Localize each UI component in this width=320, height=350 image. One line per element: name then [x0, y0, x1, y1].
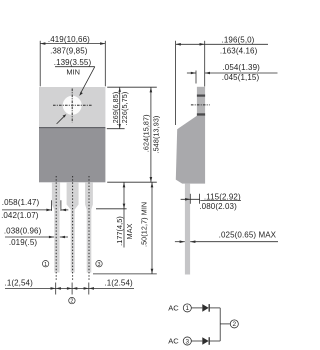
dim .058/.042 tick left [51, 200, 53, 211]
dim .038/.019 right stub [60, 236, 68, 238]
schematic node 1 circle [183, 304, 191, 312]
lead 3 center line [88, 176, 90, 281]
dim .269/.226 dimension line [119, 87, 121, 129]
svg-text:3: 3 [98, 262, 101, 268]
svg-text:1: 1 [186, 305, 190, 312]
dim .196/.163 dimension line [176, 43, 268, 45]
lead 2 [67, 182, 79, 272]
dim .177 dimension line [123, 182, 125, 247]
dim .025 left arrow line [175, 241, 185, 243]
wire node stub [220, 323, 230, 325]
dim .115/.080 label line [200, 200, 241, 202]
tab bottom extension line [107, 128, 125, 130]
svg-text:.042(1.07): .042(1.07) [1, 211, 39, 220]
tab top extension line [107, 86, 157, 88]
front view mounting hole [63, 96, 82, 115]
svg-text:.163(4.16): .163(4.16) [220, 47, 258, 56]
dim .50 dimension line [151, 182, 153, 274]
lead 2 center line [72, 176, 74, 281]
dim .115/.080 tick 2 [199, 194, 201, 204]
side view lead [185, 184, 190, 275]
dim .419/.387 dimension line [40, 43, 105, 45]
pin 3 callout [96, 261, 102, 267]
dim .054/.045 tick [195, 71, 197, 84]
dim .419/.387 extension line right [104, 41, 106, 87]
svg-text:.019(.5): .019(.5) [9, 238, 38, 247]
lead 1 [52, 182, 60, 272]
svg-text:.196(5,0): .196(5,0) [222, 36, 255, 45]
dim .058/.042 tick right [60, 200, 62, 211]
diode D1 [202, 304, 208, 312]
dim .025 label line [190, 241, 278, 243]
svg-text:.139(3.55): .139(3.55) [54, 58, 92, 67]
tab-body junction line [39, 127, 105, 129]
side view body [176, 116, 205, 184]
wire D1 to node [210, 307, 220, 309]
svg-text:.054(1.39): .054(1.39) [222, 63, 260, 72]
svg-text:.387(9,85): .387(9,85) [50, 46, 88, 55]
svg-text:.624(15,87): .624(15,87) [142, 114, 151, 152]
dim .419/.387 extension line left [39, 41, 41, 87]
svg-text:.025(0.65) MAX: .025(0.65) MAX [219, 231, 277, 240]
svg-text:.269(6,85): .269(6,85) [111, 92, 120, 126]
svg-text:AC: AC [168, 337, 179, 346]
wire AC3 to D2 [192, 340, 203, 342]
dim .058/.042 dimension line [2, 209, 52, 211]
dim .054/.045 label line [205, 72, 278, 74]
svg-text:.080(2.03): .080(2.03) [199, 202, 237, 211]
wire AC1 to D1 [192, 307, 203, 309]
lead end extension line [93, 273, 157, 275]
dim .196/.163 extension line left [175, 41, 177, 125]
pin pitch tick 1 [55, 283, 57, 295]
svg-text:.50(12,7) MIN: .50(12,7) MIN [140, 202, 149, 247]
svg-text:MIN: MIN [66, 68, 80, 77]
schematic node 2 circle [230, 320, 238, 328]
hole leader lower [57, 116, 65, 124]
svg-text:2: 2 [233, 321, 237, 328]
pin 1 callout [42, 261, 48, 267]
dim .058/.042 right stub [61, 209, 68, 211]
schematic node 3 circle [183, 337, 191, 345]
svg-text:.115(2.92): .115(2.92) [204, 192, 241, 201]
wire D2 to node [210, 340, 220, 342]
side view tab groove lower [197, 113, 205, 116]
pin pitch tick 2 [71, 283, 73, 295]
svg-text:.177(4,5): .177(4,5) [115, 216, 124, 246]
svg-text:.226(5,75): .226(5,75) [120, 92, 129, 126]
dim .038/.019 dimension line [5, 236, 54, 238]
svg-text:1: 1 [44, 262, 47, 268]
diode D2 [202, 337, 208, 345]
svg-text:.1(2.54): .1(2.54) [104, 279, 133, 288]
svg-text:.038(0.96): .038(0.96) [4, 227, 42, 236]
side view tab slab [197, 87, 205, 116]
hole leader upper [80, 67, 95, 94]
pin pitch dimension line [5, 287, 134, 289]
front view body [39, 128, 105, 182]
dim .196/.163 extension line right [204, 41, 206, 87]
svg-text:AC: AC [168, 304, 179, 313]
lead shoulder extension line [96, 208, 127, 210]
svg-text:.1(2,54): .1(2,54) [5, 279, 34, 288]
front view mounting tab [39, 87, 105, 128]
svg-text:.419(10,66): .419(10,66) [48, 35, 90, 44]
pin pitch tick 3 [88, 283, 90, 295]
dim .115/.080 left arrow line [181, 198, 200, 200]
svg-text:MAX: MAX [125, 223, 134, 239]
svg-text:3: 3 [186, 338, 190, 345]
lead 3 [85, 182, 93, 272]
svg-text:2: 2 [70, 299, 73, 305]
wire vertical bus [219, 308, 221, 341]
hole center line vertical [71, 89, 73, 123]
dim .054/.045 left arrow line [187, 72, 196, 74]
dim .624/.548 dimension line [150, 87, 152, 182]
svg-text:.058(1.47): .058(1.47) [2, 198, 40, 207]
lead 1 center line [55, 176, 57, 281]
body bottom extension line [107, 181, 157, 183]
side view hole center line [191, 104, 210, 106]
svg-text:.548(13,93): .548(13,93) [152, 116, 161, 154]
dim .115/.080 tick 1 [189, 194, 191, 204]
side view tab groove upper [197, 95, 205, 97]
svg-text:.045(1,15): .045(1,15) [222, 73, 260, 82]
hole center line horizontal [53, 104, 93, 106]
hole dia label line [55, 66, 95, 68]
pin 2 callout [69, 297, 75, 303]
